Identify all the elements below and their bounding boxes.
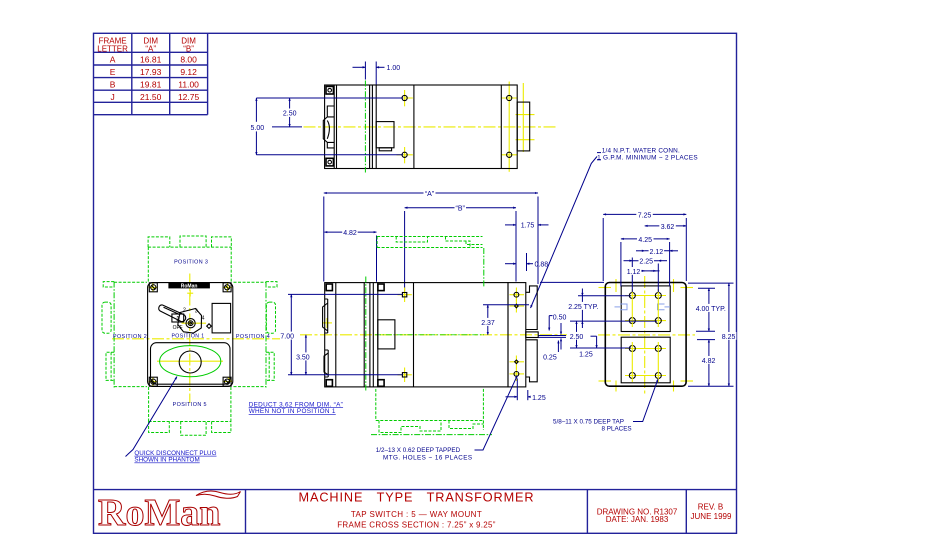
left view body square — [148, 283, 233, 387]
svg-text:“B”: “B” — [183, 45, 194, 54]
dimension 7.25 — [603, 210, 686, 281]
dimension 4.82 right — [697, 340, 716, 387]
svg-text:2.25 TYP.: 2.25 TYP. — [568, 304, 598, 311]
top view connector centerlines yellow — [516, 83, 535, 152]
svg-text:POSITION 1: POSITION 1 — [171, 334, 204, 340]
dimension 2.25 — [624, 257, 668, 292]
svg-text:2.12: 2.12 — [649, 249, 663, 256]
front view green phantom position lines — [366, 248, 484, 392]
left view diamond marker — [207, 324, 212, 329]
svg-text:A: A — [110, 54, 116, 64]
dimension 3.62 — [645, 222, 687, 231]
left view switch escutcheon — [178, 309, 202, 334]
svg-text:11.00: 11.00 — [178, 80, 199, 90]
note 5/8-11 deep tap — [553, 419, 632, 433]
svg-text:1.12: 1.12 — [627, 269, 641, 276]
svg-text:1.00: 1.00 — [387, 65, 401, 72]
front view centerline — [300, 334, 567, 336]
front view upper bushing — [323, 299, 328, 333]
svg-text:E: E — [110, 67, 116, 77]
top view green phantom frame line — [364, 81, 366, 173]
title block divider lines — [94, 490, 737, 534]
svg-text:“A”: “A” — [145, 45, 156, 54]
side view outer plate — [605, 283, 686, 387]
left view corner bolts — [149, 283, 231, 386]
svg-text:0.50: 0.50 — [553, 315, 567, 322]
svg-text:8.25: 8.25 — [722, 334, 736, 341]
top view mounting holes — [402, 95, 512, 157]
svg-text:9.12: 9.12 — [180, 67, 197, 77]
svg-text:TAP SWITCH : 5 — WAY MOUNT: TAP SWITCH : 5 — WAY MOUNT — [351, 510, 482, 519]
svg-text:3.62: 3.62 — [661, 224, 675, 231]
svg-text:4.00 TYP.: 4.00 TYP. — [696, 306, 726, 313]
left view plug circle — [179, 351, 201, 373]
top view tap switch housing — [376, 122, 394, 151]
side view water fittings light blue — [615, 304, 671, 310]
top view bushing — [323, 106, 334, 148]
svg-text:POSITION 5: POSITION 5 — [173, 402, 207, 408]
left view nameplate — [168, 283, 210, 297]
dimension 2.50 right of flange — [569, 321, 631, 348]
svg-text:MACHINE TYPE TRANSFORMER: MACHINE TYPE TRANSFORMER — [299, 491, 535, 505]
front view clamp squares — [326, 284, 384, 386]
dimension 2.12 — [636, 247, 678, 256]
side view lower window — [621, 337, 670, 383]
dimension 2.50 — [272, 98, 302, 127]
revision block text — [691, 503, 732, 522]
svg-text:1/2–13 X 0.62 DEEP TAPPED: 1/2–13 X 0.62 DEEP TAPPED — [376, 447, 461, 454]
svg-text:5.00: 5.00 — [250, 125, 264, 132]
svg-text:12.75: 12.75 — [178, 92, 200, 102]
frame size table grid — [94, 33, 208, 114]
dimension 8.25 — [688, 283, 736, 386]
svg-text:J: J — [110, 92, 114, 102]
leader quick disconnect — [126, 377, 178, 457]
svg-text:REV. B: REV. B — [698, 503, 724, 512]
svg-text:OFF: OFF — [173, 325, 183, 331]
front view lower right tab block — [526, 340, 537, 382]
svg-text:1/4 N.P.T. WATER CONN.: 1/4 N.P.T. WATER CONN. — [602, 148, 680, 155]
svg-text:2.50: 2.50 — [283, 111, 297, 118]
svg-text:8 PLACES: 8 PLACES — [602, 426, 632, 433]
svg-text:FRAME CROSS SECTION : 7.25” x: FRAME CROSS SECTION : 7.25” x 9.25” — [337, 521, 496, 530]
dimension 0.25 — [543, 341, 558, 362]
position labels — [113, 259, 270, 408]
left view green phantom bottom strip — [149, 387, 231, 435]
svg-text:4.25: 4.25 — [638, 237, 652, 244]
svg-text:MTG. HOLES ~ 16 PLACES: MTG. HOLES ~ 16 PLACES — [383, 455, 473, 462]
front view phantom centerline dashes green — [375, 334, 484, 336]
left view inner base plate — [151, 343, 231, 385]
dimension 1.25 right — [579, 336, 597, 358]
svg-text:WHEN NOT IN POSITION 1: WHEN NOT IN POSITION 1 — [249, 408, 336, 415]
dimension A — [324, 188, 538, 284]
top view right connector block — [517, 102, 530, 151]
left view green phantom left strip — [102, 282, 147, 388]
table header text — [97, 37, 196, 54]
top view hole crosshair verticals — [397, 82, 518, 172]
svg-text:JUNE 1999: JUNE 1999 — [691, 512, 732, 521]
top view internal vertical lines — [334, 85, 501, 169]
svg-text:1.75: 1.75 — [521, 223, 535, 230]
note quick disconnect plug — [134, 450, 216, 464]
svg-text:4.82: 4.82 — [343, 230, 357, 237]
svg-text:SHOWN IN PHANTOM: SHOWN IN PHANTOM — [134, 457, 199, 464]
front view upper right tab block — [526, 286, 537, 330]
front view internal verticals — [336, 283, 414, 387]
svg-text:3: 3 — [195, 309, 198, 315]
left view terminal cover rect — [212, 303, 231, 333]
svg-text:POSITION 4: POSITION 4 — [236, 334, 270, 340]
left view green phantom top strip — [148, 236, 231, 282]
svg-text:1.25: 1.25 — [532, 395, 546, 402]
svg-text:LETTER: LETTER — [97, 45, 128, 54]
dimension 3.50 — [296, 335, 311, 375]
dimension B — [405, 203, 516, 291]
side view upper window — [621, 286, 670, 332]
left view centerlines yellow — [112, 274, 280, 404]
dimension 5.00 — [250, 98, 403, 155]
note deduct 3.62 — [249, 401, 343, 415]
note 1/4 NPT water conn — [597, 148, 698, 162]
svg-text:RoMan: RoMan — [98, 492, 220, 534]
title text MACHINE TYPE TRANSFORMER — [299, 491, 535, 530]
dimension 4.25 — [621, 235, 670, 287]
svg-text:3.50: 3.50 — [296, 354, 310, 361]
dimension 4.00 TYP — [695, 288, 727, 331]
front view lower bushing — [324, 350, 328, 377]
drawing frame border — [94, 33, 737, 533]
dimension 1.75 — [505, 221, 549, 230]
drawing number block text — [597, 508, 678, 525]
svg-text:19.81: 19.81 — [140, 80, 162, 90]
top view left clamp squares — [326, 86, 333, 166]
svg-text:4: 4 — [202, 316, 205, 322]
left view quick disconnect oval green — [160, 346, 221, 377]
svg-text:7.25: 7.25 — [638, 212, 652, 219]
svg-text:2.50: 2.50 — [570, 334, 584, 341]
leader 5/8-11 — [633, 379, 658, 422]
svg-text:“A”: “A” — [425, 191, 435, 198]
leader for 1/2-13 note — [475, 376, 518, 451]
svg-text:DATE: JAN. 1983: DATE: JAN. 1983 — [606, 515, 669, 524]
side view top edge extension — [540, 281, 604, 283]
dimension 4.82 — [324, 228, 376, 282]
left view switch position numbers — [176, 307, 205, 323]
front view body mounting holes — [402, 293, 406, 378]
svg-text:17.93: 17.93 — [140, 67, 162, 77]
svg-text:7.00: 7.00 — [280, 334, 294, 341]
svg-text:1 G.P.M. MINIMUM ~ 2 PLACES: 1 G.P.M. MINIMUM ~ 2 PLACES — [597, 155, 698, 162]
svg-text:RoMan: RoMan — [181, 284, 198, 290]
front view terminal plates — [539, 336, 567, 338]
top view centerline — [304, 126, 556, 128]
table data text — [110, 54, 200, 102]
svg-text:4.82: 4.82 — [702, 358, 716, 365]
front view center terminal box — [526, 332, 538, 338]
svg-text:2.37: 2.37 — [481, 320, 495, 327]
side view hole crosshair verticals — [632, 289, 658, 382]
svg-text:2: 2 — [183, 307, 186, 313]
front view flange holes — [514, 292, 519, 376]
left view OFF label — [173, 325, 183, 331]
top view body outline — [325, 85, 518, 169]
dimension 1.25 bottom — [506, 379, 546, 403]
water connection leader — [531, 153, 602, 308]
front view green phantom top — [377, 237, 482, 248]
svg-text:1.25: 1.25 — [579, 351, 593, 358]
svg-text:“B”: “B” — [456, 206, 466, 213]
side view tapped holes — [629, 293, 661, 379]
front view green phantom bottom — [371, 389, 492, 435]
dimension 0.50 — [549, 315, 566, 350]
dimension 7.00 — [280, 294, 403, 374]
svg-text:1: 1 — [176, 316, 180, 323]
svg-text:21.50: 21.50 — [140, 92, 162, 102]
front view hole crosshairs yellow — [322, 288, 524, 383]
svg-text:5/8–11 X 0.75 DEEP TAP: 5/8–11 X 0.75 DEEP TAP — [553, 419, 624, 426]
dimension 1.12 — [626, 267, 660, 276]
svg-text:POSITION 3: POSITION 3 — [174, 259, 208, 265]
svg-text:POSITION 2: POSITION 2 — [113, 334, 147, 340]
dimension 0.88 — [505, 253, 548, 271]
note 1/2-13 tapped holes — [376, 447, 473, 462]
front view body outline — [325, 283, 508, 387]
left view switch lever — [159, 305, 186, 322]
svg-text:16.81: 16.81 — [140, 54, 162, 64]
side view centerlines yellow — [598, 276, 695, 396]
svg-text:B: B — [110, 80, 116, 90]
svg-text:0.88: 0.88 — [535, 262, 549, 269]
dimension 1.00 — [353, 62, 401, 85]
svg-text:0.25: 0.25 — [543, 355, 557, 362]
front view right flange — [508, 283, 526, 387]
front view tap switch box — [378, 320, 395, 349]
svg-text:8.00: 8.00 — [180, 54, 197, 64]
left view green phantom right strip — [234, 282, 278, 388]
RoMan logo — [98, 491, 241, 534]
dimension 2.37 — [480, 305, 529, 335]
svg-text:2.25: 2.25 — [639, 259, 653, 266]
dimension 2.25 TYP left — [567, 289, 657, 329]
